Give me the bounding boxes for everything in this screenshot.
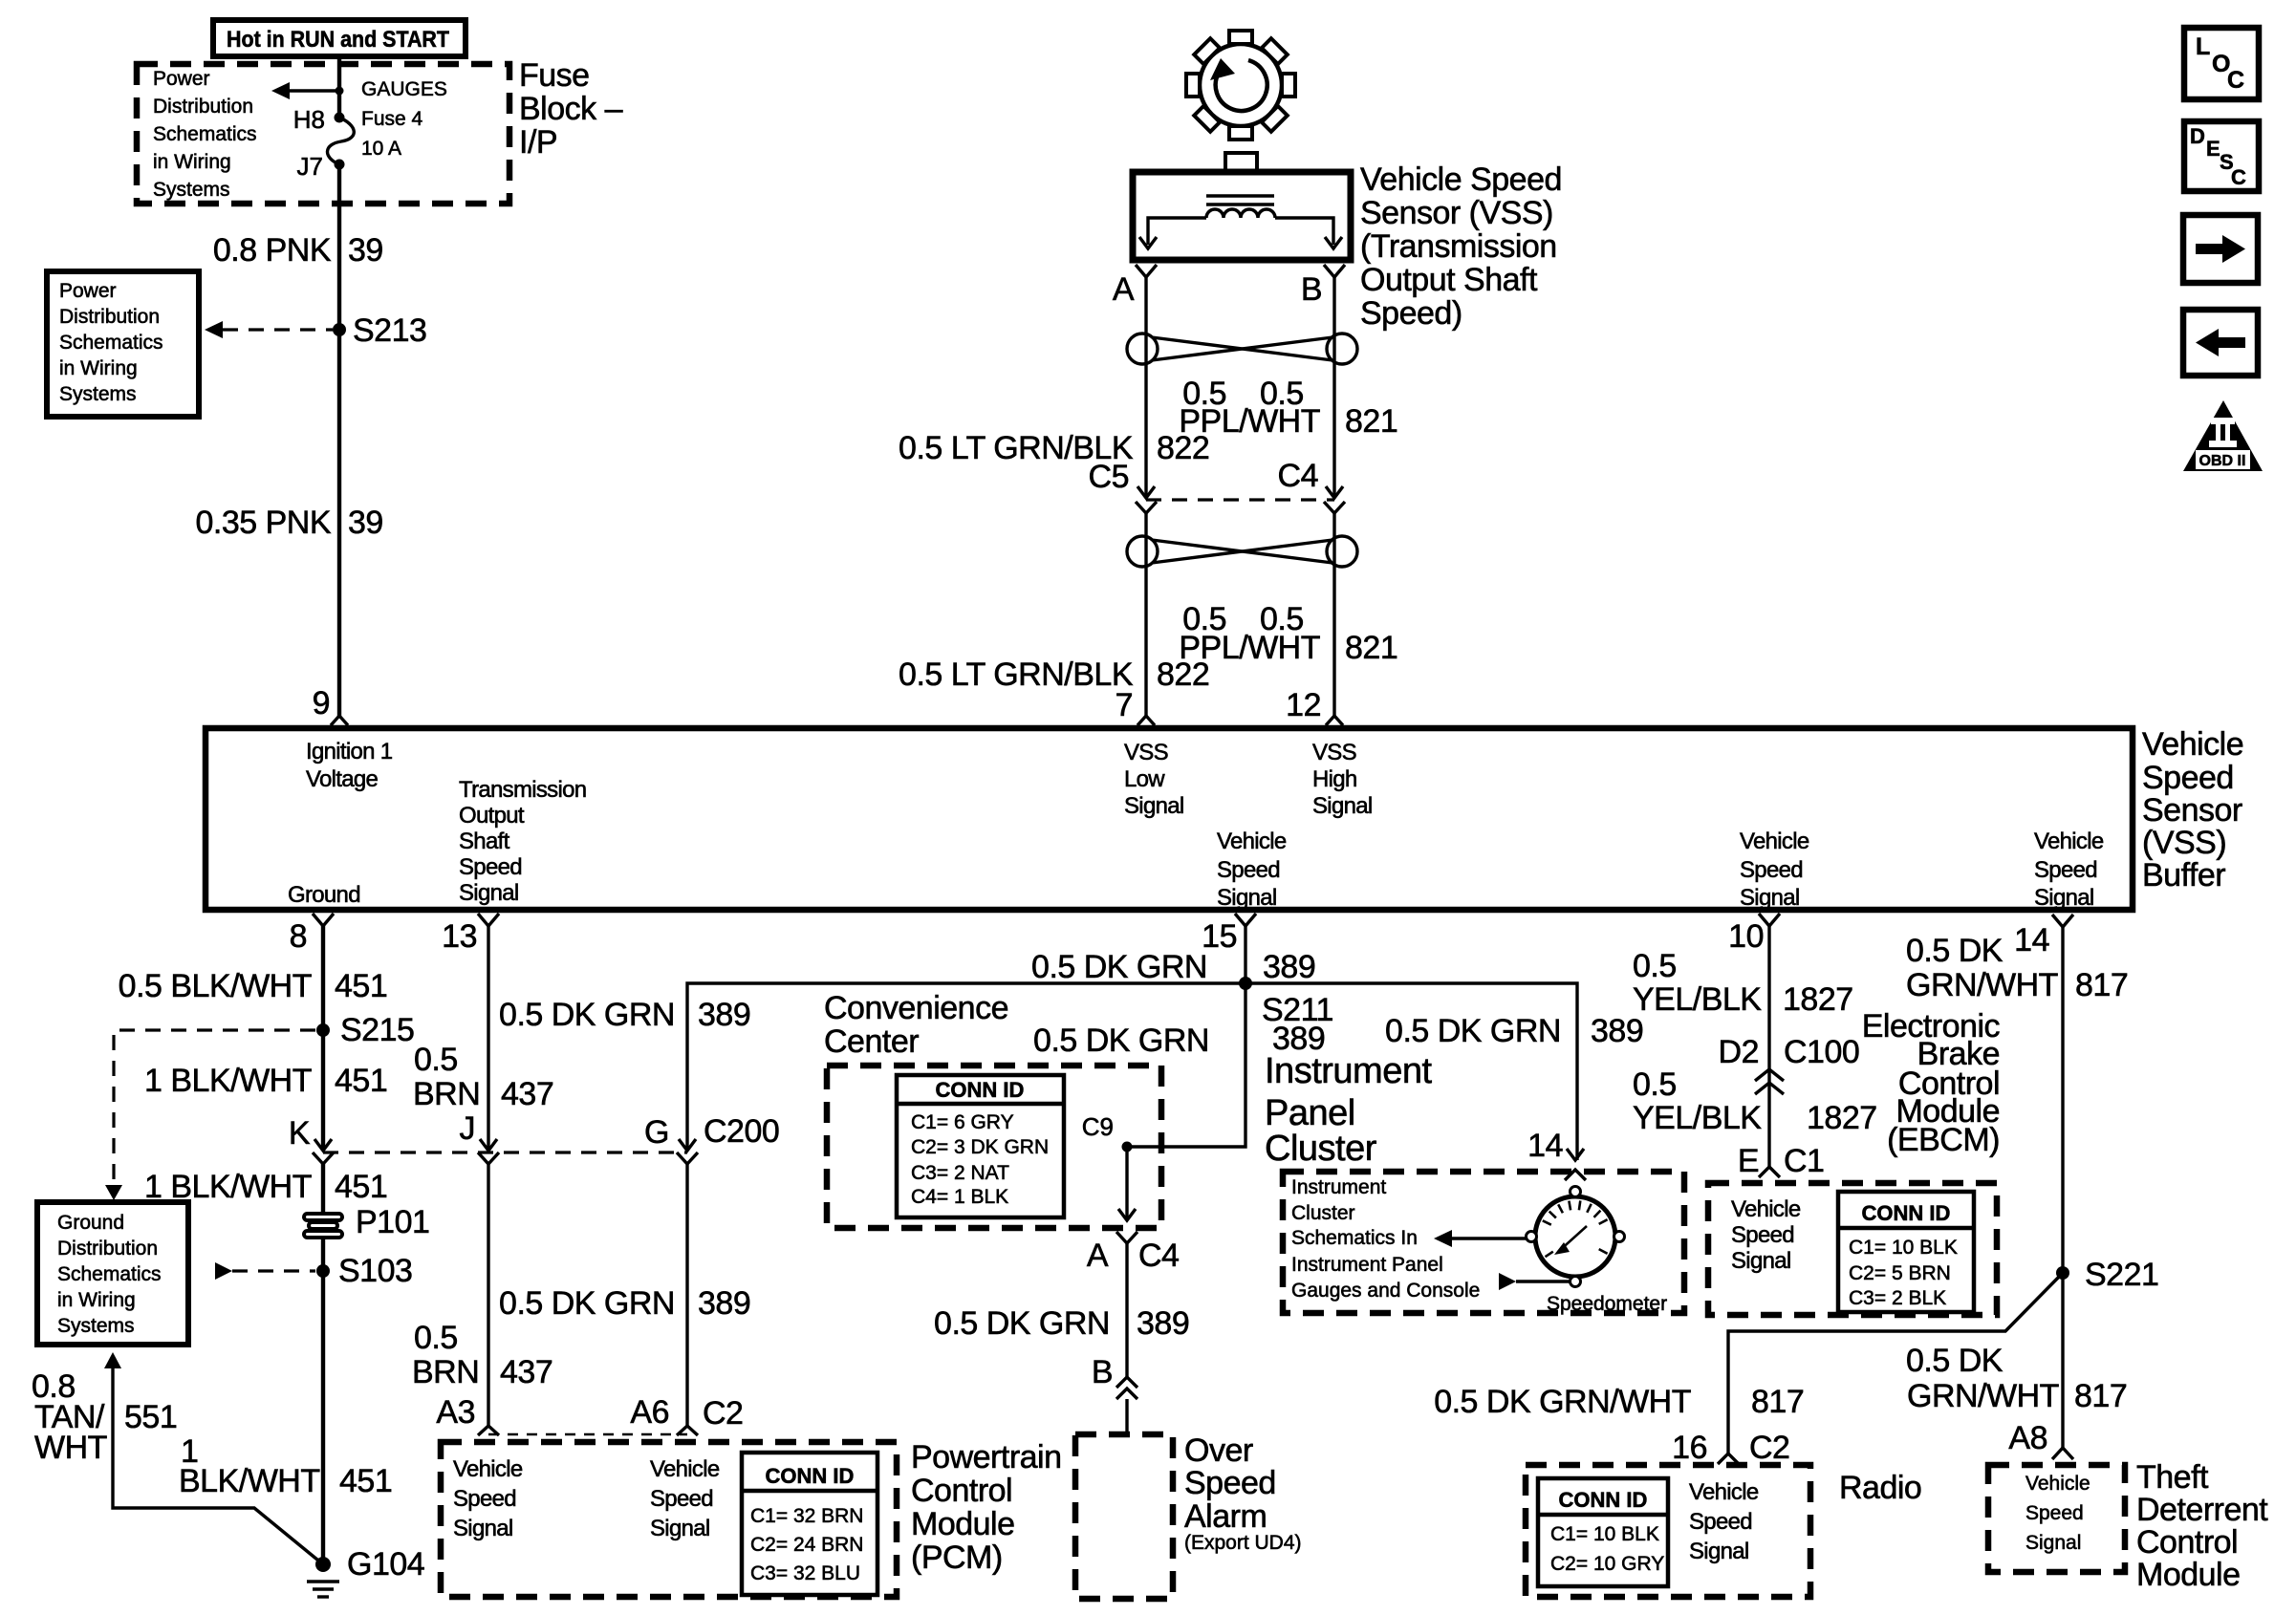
svg-text:0.5 DK GRN: 0.5 DK GRN — [1033, 1023, 1209, 1059]
buffer pin 9 — [313, 685, 348, 725]
svg-text:C1= 32 BRN: C1= 32 BRN — [750, 1505, 863, 1527]
svg-text:Cluster: Cluster — [1291, 1202, 1355, 1224]
svg-text:(Transmission: (Transmission — [1360, 228, 1557, 265]
wire: 0.8 PNK 39 (J7 to S213) — [337, 164, 341, 330]
fuse block dashed box — [137, 64, 509, 204]
svg-text:Signal: Signal — [2034, 885, 2094, 911]
svg-text:CONN ID: CONN ID — [1862, 1201, 1951, 1225]
in-line connector C200 pin K — [289, 1115, 334, 1164]
label: Vehicle Speed Sensor (VSS) Buffer — [2142, 726, 2243, 894]
labels 0.5 0.5 PPL/WHT 821 (upper) — [1179, 376, 1397, 440]
svg-text:C1= 6 GRY: C1= 6 GRY — [911, 1111, 1014, 1133]
svg-text:Over: Over — [1184, 1432, 1253, 1469]
VSS buffer box — [206, 728, 2133, 910]
svg-text:Speed: Speed — [2034, 857, 2097, 883]
splice S211 — [1239, 977, 1252, 990]
svg-text:C1= 10 BLK: C1= 10 BLK — [1550, 1523, 1659, 1545]
radio pin 16 / C2 — [1672, 1430, 1789, 1466]
sensor internal leads with arrows — [1139, 218, 1342, 248]
svg-text:A3: A3 — [436, 1394, 475, 1431]
svg-text:0.5: 0.5 — [1633, 948, 1677, 984]
svg-text:(PCM): (PCM) — [911, 1540, 1003, 1576]
svg-text:Instrument: Instrument — [1291, 1176, 1386, 1198]
buffer pin 13 — [442, 914, 499, 955]
wire: A to B (0.5 DK GRN 389) — [1125, 1243, 1128, 1377]
sensor pin A — [1113, 265, 1157, 308]
wire: S211 down to C9 junction — [1127, 983, 1245, 1147]
conn id table (radio) — [1538, 1478, 1668, 1586]
PCM pin A3 — [436, 1394, 499, 1435]
svg-text:C2: C2 — [703, 1395, 743, 1432]
conn id table (EBCM) — [1838, 1192, 1974, 1312]
label 0.5 DK GRN 389 (above A6) — [499, 1285, 750, 1322]
svg-text:0.5 DK GRN: 0.5 DK GRN — [1385, 1013, 1561, 1049]
svg-text:Speed: Speed — [2142, 760, 2234, 796]
wire: C9 down through box edge — [1116, 1147, 1137, 1243]
svg-text:D2: D2 — [1719, 1034, 1759, 1070]
svg-text:CONN ID: CONN ID — [1559, 1488, 1648, 1512]
svg-text:Block –: Block – — [519, 91, 623, 127]
wire: pin 14 to S221 (0.5 DK GRN/WHT 817) — [2061, 927, 2064, 1448]
svg-text:Signal: Signal — [453, 1516, 513, 1541]
label 0.5 LT GRN/BLK 822 (upper) — [899, 430, 1209, 466]
svg-text:451: 451 — [335, 1063, 387, 1099]
svg-text:High: High — [1312, 766, 1357, 792]
buffer terminal: Vehicle Speed Signal (pin 15) — [1217, 829, 1287, 911]
svg-text:S221: S221 — [2085, 1257, 2158, 1293]
svg-text:C2= 10 GRY: C2= 10 GRY — [1550, 1553, 1664, 1575]
svg-text:WHT: WHT — [34, 1430, 107, 1466]
svg-text:0.5 DK GRN: 0.5 DK GRN — [1031, 949, 1207, 985]
wire: pin 10 to EBCM E (0.5 YEL/BLK 1827) — [1767, 926, 1770, 1167]
svg-text:P101: P101 — [356, 1204, 429, 1240]
svg-text:7: 7 — [1116, 687, 1133, 723]
svg-text:Vehicle Speed: Vehicle Speed — [1360, 161, 1562, 198]
wire: P101 to S103 — [321, 1238, 325, 1271]
svg-text:1 BLK/WHT: 1 BLK/WHT — [144, 1063, 312, 1099]
svg-text:Convenience: Convenience — [824, 990, 1008, 1026]
convenience center dashed box — [827, 1066, 1161, 1228]
wire: S221 to radio pin 16 — [1728, 1273, 2063, 1453]
svg-text:Vehicle: Vehicle — [1217, 829, 1287, 854]
svg-text:Panel: Panel — [1265, 1093, 1355, 1133]
label 0.5 DK GRN/WHT 817 (top) — [1906, 933, 2128, 1003]
svg-text:in Wiring: in Wiring — [57, 1289, 136, 1311]
svg-text:C2= 3 DK GRN: C2= 3 DK GRN — [911, 1136, 1049, 1158]
svg-text:I/P: I/P — [519, 124, 557, 161]
svg-text:C1: C1 — [1784, 1143, 1824, 1179]
note: instrument cluster schematics reference — [1291, 1176, 1480, 1302]
svg-text:Sensor: Sensor — [2142, 792, 2242, 829]
svg-text:Speedometer: Speedometer — [1547, 1293, 1667, 1315]
splice S103 — [316, 1264, 330, 1278]
buffer terminal: Vehicle Speed Signal (pin 14) — [2034, 829, 2104, 911]
twisted pair symbol upper — [1127, 334, 1357, 364]
label 0.5 BRN 437 (above A3) — [412, 1320, 552, 1390]
svg-text:G104: G104 — [347, 1546, 424, 1583]
label 0.5 DK GRN 389 (above S211) — [1031, 949, 1315, 985]
sensor shaft link — [1225, 153, 1257, 173]
svg-text:C200: C200 — [704, 1113, 779, 1150]
svg-text:Buffer: Buffer — [2142, 857, 2225, 894]
wire: 0.8 TAN/WHT 551 from ground box to G104 — [104, 1352, 323, 1564]
svg-text:0.5 DK GRN/WHT: 0.5 DK GRN/WHT — [1434, 1384, 1691, 1420]
svg-text:YEL/BLK: YEL/BLK — [1633, 981, 1762, 1018]
in-line connector C200 pin J — [460, 1110, 500, 1164]
svg-text:J: J — [460, 1110, 476, 1147]
svg-text:Signal: Signal — [1124, 793, 1184, 819]
wire A lower segment — [1144, 513, 1147, 716]
svg-text:0.5 DK GRN: 0.5 DK GRN — [934, 1305, 1110, 1342]
svg-text:Speed: Speed — [1731, 1222, 1794, 1248]
wire: K to P101 (1 BLK/WHT 451) — [321, 1164, 325, 1215]
splice S213 — [333, 323, 346, 336]
svg-text:(Export UD4): (Export UD4) — [1184, 1532, 1302, 1554]
wire A upper segment (822) — [1144, 277, 1147, 496]
buffer terminal: Transmission Output Shaft Speed Signal — [459, 777, 586, 906]
svg-text:389: 389 — [1137, 1305, 1189, 1342]
svg-text:Speed: Speed — [650, 1486, 713, 1512]
svg-text:39: 39 — [348, 505, 383, 541]
in-line connector C5 — [1089, 459, 1157, 513]
dashed connector line C5-C4 — [1146, 498, 1334, 501]
svg-text:Gauges and Console: Gauges and Console — [1291, 1280, 1480, 1302]
svg-text:Vehicle: Vehicle — [2034, 829, 2104, 854]
svg-text:Speed): Speed) — [1360, 295, 1462, 332]
wire: 0.35 PNK 39 (S213 to pin 9) — [337, 330, 341, 716]
label 0.35 PNK 39 — [195, 505, 382, 541]
svg-text:Systems: Systems — [59, 383, 137, 405]
wire: hot feed into fuse block — [337, 56, 341, 118]
svg-text:0.8 PNK: 0.8 PNK — [213, 232, 332, 269]
svg-text:Fuse: Fuse — [519, 57, 590, 94]
wire: pin 13 to J (0.5 BRN 437) — [487, 926, 489, 1151]
svg-text:B: B — [1301, 271, 1322, 308]
svg-text:0.5 DK: 0.5 DK — [1906, 1343, 2004, 1379]
svg-text:G: G — [644, 1114, 669, 1151]
svg-text:Systems: Systems — [57, 1315, 135, 1337]
label 0.5 YEL/BLK 1827 (above C100) — [1633, 948, 1853, 1018]
svg-text:Speed: Speed — [2025, 1502, 2084, 1524]
svg-text:Signal: Signal — [1689, 1539, 1749, 1564]
radio dashed box — [1526, 1465, 1810, 1597]
svg-text:VSS: VSS — [1124, 740, 1168, 765]
svg-text:in Wiring: in Wiring — [153, 151, 231, 173]
svg-text:Theft: Theft — [2136, 1459, 2209, 1496]
svg-text:Ground: Ground — [57, 1212, 124, 1234]
svg-text:C4: C4 — [1138, 1238, 1179, 1274]
svg-text:CONN ID: CONN ID — [766, 1464, 855, 1488]
svg-text:9: 9 — [313, 685, 330, 721]
svg-text:Shaft: Shaft — [459, 829, 510, 854]
svg-text:451: 451 — [339, 1463, 392, 1499]
PCM dashed box — [441, 1442, 897, 1597]
junction dot at fuse feed — [336, 87, 344, 96]
svg-text:Distribution: Distribution — [153, 96, 253, 118]
svg-text:Signal: Signal — [1731, 1248, 1791, 1274]
icon arrow left — [2183, 310, 2258, 376]
svg-text:C100: C100 — [1784, 1034, 1859, 1070]
svg-text:Signal: Signal — [2025, 1532, 2081, 1554]
svg-text:OBD II: OBD II — [2199, 453, 2246, 469]
PCM terminal: Vehicle Speed Signal (A6) — [650, 1456, 720, 1541]
label 0.5 YEL/BLK 1827 (below C100) — [1633, 1066, 1877, 1136]
icon DESC — [2184, 121, 2259, 191]
label: Theft Deterrent Control Module — [2136, 1459, 2268, 1593]
svg-text:BLK/WHT: BLK/WHT — [179, 1463, 320, 1499]
svg-text:C: C — [2227, 67, 2244, 94]
wire: pin 8 to S215 (0.5 BLK/WHT 451) — [321, 926, 325, 1030]
sensor pickup coil — [1206, 209, 1275, 218]
svg-text:C9: C9 — [1082, 1112, 1114, 1141]
svg-text:Deterrent: Deterrent — [2136, 1492, 2268, 1528]
svg-text:H8: H8 — [293, 105, 325, 134]
svg-text:0.35 PNK: 0.35 PNK — [195, 505, 331, 541]
svg-text:822: 822 — [1157, 657, 1209, 693]
svg-text:8: 8 — [290, 918, 307, 955]
conn id table (convenience center) — [897, 1075, 1064, 1217]
svg-text:13: 13 — [442, 918, 477, 955]
label 0.8 PNK 39 — [213, 232, 383, 269]
svg-text:0.5 BLK/WHT: 0.5 BLK/WHT — [119, 968, 312, 1004]
buffer terminal: Vehicle Speed Signal (pin 10) — [1740, 829, 1809, 911]
svg-text:Power: Power — [153, 68, 210, 90]
svg-text:Schematics: Schematics — [59, 332, 163, 354]
svg-text:C3= 2 NAT: C3= 2 NAT — [911, 1162, 1009, 1184]
splice S213 dashed reference arrow — [205, 321, 333, 338]
splice S215 — [316, 1023, 330, 1037]
reference box: power distribution schematics — [47, 271, 199, 417]
label: Convenience Center — [824, 990, 1008, 1060]
wire: S103 to G104 (1 BLK/WHT 451) — [321, 1271, 325, 1564]
svg-text:389: 389 — [1591, 1013, 1643, 1049]
note: power distribution reference (in fuse block) — [153, 68, 257, 201]
svg-text:Schematics In: Schematics In — [1291, 1227, 1418, 1249]
svg-text:Signal: Signal — [1740, 885, 1800, 911]
label 1 BLK/WHT 451 (below K) — [144, 1169, 387, 1205]
ground G104 — [307, 1557, 339, 1597]
label: Instrument Panel Cluster — [1265, 1051, 1432, 1169]
VSS sensor body box — [1133, 172, 1351, 260]
wire: J to A3 (0.5 BRN 437) — [487, 1164, 489, 1426]
svg-text:Sensor (VSS): Sensor (VSS) — [1360, 195, 1553, 231]
svg-text:Hot in RUN and START: Hot in RUN and START — [227, 27, 449, 53]
in-line connector C200 pin G — [644, 1113, 779, 1164]
cluster pin 14 — [1527, 1128, 1586, 1180]
svg-text:Vehicle: Vehicle — [1740, 829, 1809, 854]
svg-text:Low: Low — [1124, 766, 1165, 792]
sensor pin B — [1301, 265, 1345, 308]
junction C9 — [1122, 1142, 1133, 1152]
label 0.5 DK GRN/WHT 817 (theft) — [1906, 1343, 2127, 1414]
buffer pin 15 — [1202, 914, 1256, 955]
svg-text:0.5: 0.5 — [1633, 1066, 1677, 1103]
svg-text:Powertrain: Powertrain — [911, 1439, 1062, 1475]
label 0.5 DK GRN/WHT 817 (radio) — [1434, 1384, 1804, 1420]
PCM terminal: Vehicle Speed Signal (A3) — [453, 1456, 523, 1541]
svg-text:14: 14 — [2014, 922, 2049, 958]
svg-text:551: 551 — [124, 1399, 177, 1435]
dashed connector line A3-A6 — [488, 1433, 687, 1435]
label 0.5 DK GRN 389 (A-B) — [934, 1305, 1189, 1342]
svg-text:0.5 DK GRN: 0.5 DK GRN — [499, 997, 675, 1033]
svg-text:K: K — [289, 1115, 311, 1152]
svg-text:C2: C2 — [1749, 1430, 1789, 1466]
svg-text:Instrument: Instrument — [1265, 1051, 1432, 1091]
theft deterrent dashed box — [1988, 1465, 2125, 1572]
label 0.5 DK GRN 389 (below S211) — [1033, 1021, 1325, 1059]
svg-text:Signal: Signal — [459, 880, 519, 906]
svg-text:389: 389 — [1263, 949, 1315, 985]
power label box "Hot in RUN and START" — [213, 20, 466, 56]
buffer pin 12 — [1286, 687, 1343, 725]
svg-text:Transmission: Transmission — [459, 777, 586, 803]
svg-text:Systems: Systems — [153, 179, 230, 201]
svg-text:Fuse 4: Fuse 4 — [361, 108, 423, 130]
svg-text:A8: A8 — [2008, 1420, 2047, 1456]
svg-text:J7: J7 — [297, 152, 323, 181]
label 0.8 TAN/WHT 551 — [32, 1368, 177, 1466]
svg-text:Speed: Speed — [1184, 1465, 1276, 1501]
svg-text:S213: S213 — [353, 312, 426, 349]
svg-text:E: E — [2206, 137, 2220, 161]
speedometer reference arrow right — [1499, 1273, 1570, 1290]
svg-text:0.5: 0.5 — [414, 1042, 458, 1078]
grommet P101 — [304, 1214, 342, 1238]
svg-text:B: B — [1092, 1354, 1113, 1390]
svg-text:C: C — [2231, 165, 2246, 189]
svg-text:451: 451 — [335, 968, 387, 1004]
svg-text:Speed: Speed — [453, 1486, 516, 1512]
wire: G to A6 (0.5 DK GRN 389) — [685, 1164, 688, 1426]
svg-text:in Wiring: in Wiring — [59, 357, 138, 379]
svg-text:C3= 32 BLU: C3= 32 BLU — [750, 1562, 860, 1584]
svg-text:Output Shaft: Output Shaft — [1360, 262, 1538, 298]
reluctor gear icon — [1186, 31, 1295, 140]
buffer terminal: Ignition 1 Voltage — [306, 739, 393, 792]
wire B upper segment (821) — [1332, 277, 1335, 496]
speedometer gauge — [1527, 1187, 1625, 1287]
label 1 BLK/WHT 451 (to G104) — [179, 1433, 392, 1499]
svg-text:BRN: BRN — [413, 1076, 480, 1112]
svg-text:Distribution: Distribution — [57, 1238, 158, 1260]
svg-text:1827: 1827 — [1783, 981, 1853, 1018]
svg-text:Alarm: Alarm — [1184, 1498, 1267, 1535]
svg-text:A: A — [1113, 271, 1135, 308]
svg-text:S103: S103 — [338, 1253, 412, 1289]
svg-text:0.5 LT GRN/BLK: 0.5 LT GRN/BLK — [899, 657, 1134, 693]
label 0.5 LT GRN/BLK 822 (lower) — [899, 657, 1209, 693]
icon LOC — [2184, 28, 2259, 99]
svg-text:Vehicle: Vehicle — [1731, 1196, 1801, 1222]
label: Vehicle Speed Sensor (VSS) (Transmission Output Shaft Speed) — [1360, 161, 1562, 332]
svg-text:A: A — [1087, 1238, 1109, 1274]
svg-text:0.5 DK GRN: 0.5 DK GRN — [499, 1285, 675, 1322]
svg-text:L: L — [2196, 33, 2210, 60]
dashed connector line C200 (K-J-G) — [323, 1151, 687, 1153]
svg-text:Center: Center — [824, 1023, 919, 1060]
svg-text:389: 389 — [698, 997, 750, 1033]
label 0.5 BRN 437 (above J) — [413, 1042, 553, 1112]
buffer pin 14 — [2014, 915, 2073, 958]
svg-text:Schematics: Schematics — [57, 1263, 162, 1285]
labels 0.5 0.5 PPL/WHT 821 (lower) — [1179, 601, 1397, 666]
svg-text:C1= 10 BLK: C1= 10 BLK — [1849, 1237, 1958, 1259]
svg-text:Schematics: Schematics — [153, 123, 257, 145]
svg-text:Radio: Radio — [1839, 1470, 1921, 1506]
label: Powertrain Control Module (PCM) — [911, 1439, 1062, 1576]
wire: S215 to K (1 BLK/WHT 451) — [321, 1030, 325, 1151]
S103 dashed reference line with arrow — [215, 1262, 315, 1280]
svg-text:Vehicle: Vehicle — [453, 1456, 523, 1482]
icon arrow right — [2183, 215, 2258, 283]
label 1 BLK/WHT 451 (above K) — [144, 1063, 387, 1099]
svg-text:Signal: Signal — [1217, 885, 1277, 911]
svg-text:437: 437 — [500, 1354, 552, 1390]
instrument cluster dashed box — [1283, 1172, 1684, 1313]
svg-text:0.5: 0.5 — [414, 1320, 458, 1356]
splice S221 — [2056, 1266, 2069, 1280]
svg-text:817: 817 — [1751, 1384, 1804, 1420]
svg-text:Instrument Panel: Instrument Panel — [1291, 1254, 1443, 1276]
buffer pin 10 — [1728, 914, 1780, 955]
svg-text:14: 14 — [1527, 1128, 1563, 1164]
svg-text:S215: S215 — [340, 1012, 414, 1048]
svg-text:39: 39 — [348, 232, 383, 269]
svg-text:(VSS): (VSS) — [2142, 825, 2226, 861]
svg-text:Speed: Speed — [1740, 857, 1803, 883]
svg-text:Output: Output — [459, 803, 525, 829]
svg-text:Vehicle: Vehicle — [2025, 1473, 2090, 1495]
in-line connector C4 — [1278, 458, 1345, 513]
svg-text:Speed: Speed — [1217, 857, 1280, 883]
svg-text:817: 817 — [2074, 1378, 2127, 1414]
over speed alarm dashed box — [1075, 1434, 1173, 1599]
svg-text:Cluster: Cluster — [1265, 1129, 1377, 1169]
svg-text:C5: C5 — [1089, 459, 1129, 495]
svg-text:C3= 2 BLK: C3= 2 BLK — [1849, 1287, 1946, 1309]
svg-text:Speed: Speed — [1689, 1509, 1752, 1535]
svg-text:GRN/WHT: GRN/WHT — [1906, 967, 2058, 1003]
arrow: feed to power distribution — [271, 82, 339, 99]
EBCM pin E / C1 — [1738, 1143, 1825, 1179]
fuse F4 GAUGES 10A (H8-J7) — [327, 113, 354, 170]
svg-text:822: 822 — [1157, 430, 1209, 466]
pin A / C4 (convenience center) — [1087, 1238, 1180, 1274]
wire: pin 15 to S211 (0.5 DK GRN 389) — [1244, 926, 1246, 983]
svg-text:0.5 DK: 0.5 DK — [1906, 933, 2004, 969]
svg-text:10 A: 10 A — [361, 138, 401, 160]
svg-text:Vehicle: Vehicle — [2142, 726, 2243, 763]
twisted pair symbol lower — [1127, 536, 1357, 567]
svg-text:C2= 5 BRN: C2= 5 BRN — [1849, 1262, 1951, 1284]
wire: S211 branch left and down to G — [687, 983, 1245, 1151]
svg-text:Ignition 1: Ignition 1 — [306, 739, 393, 764]
svg-text:Speed: Speed — [459, 854, 522, 880]
svg-text:451: 451 — [335, 1169, 387, 1205]
svg-text:821: 821 — [1345, 630, 1397, 666]
speedometer reference arrow left — [1434, 1230, 1526, 1247]
theft pin A8 — [2008, 1420, 2073, 1459]
svg-text:Control: Control — [911, 1473, 1012, 1509]
svg-text:1827: 1827 — [1807, 1100, 1877, 1136]
wire: S211 right to cluster pin 14 — [1245, 983, 1577, 1160]
svg-text:817: 817 — [2075, 967, 2128, 1003]
svg-text:16: 16 — [1672, 1430, 1707, 1466]
svg-text:BRN: BRN — [412, 1354, 479, 1390]
svg-text:D: D — [2190, 124, 2205, 148]
svg-text:Vehicle: Vehicle — [650, 1456, 720, 1482]
